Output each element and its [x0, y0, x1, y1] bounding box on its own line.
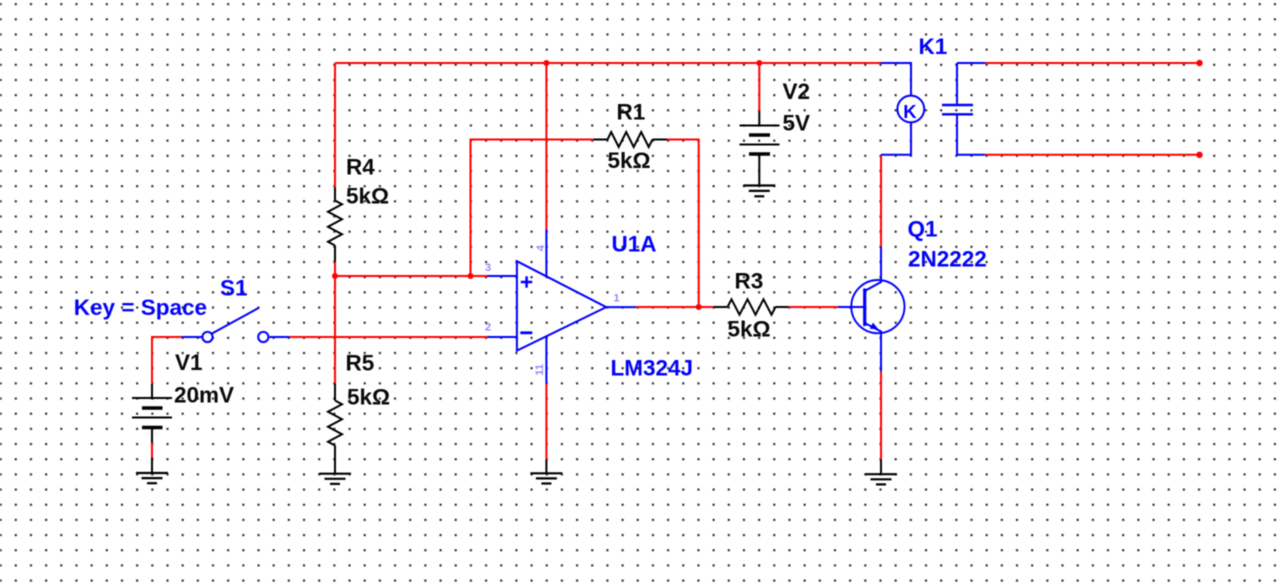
S1 left pin stub — [182, 336, 202, 338]
R5 zigzag body — [328, 401, 342, 446]
wire: R3 to Q1 base — [789, 306, 839, 308]
S1 right pin stub — [270, 336, 290, 338]
S1 blade — [212, 308, 259, 334]
svg-text:5V: 5V — [783, 110, 811, 135]
junction: divider node A — [332, 273, 338, 279]
svg-text:5kΩ: 5kΩ — [347, 385, 390, 410]
R5 top lead — [334, 384, 336, 401]
R4 bottom lead — [334, 246, 336, 263]
svg-text:U1A: U1A — [612, 232, 657, 257]
svg-text:1: 1 — [614, 293, 620, 305]
K1 contact bottom plate — [942, 113, 973, 115]
svg-text:4: 4 — [535, 244, 547, 251]
V1 top lead — [151, 384, 153, 398]
svg-text:S1: S1 — [220, 275, 248, 300]
Q1 body circle — [851, 280, 904, 333]
K1 coil bottom pin stub — [881, 122, 911, 154]
R3 left lead — [714, 306, 728, 308]
K1 coil circle — [897, 96, 924, 123]
Q1 base bar — [863, 289, 866, 327]
resistor R4 — [328, 155, 389, 263]
ground: V1 — [136, 458, 168, 484]
svg-text:2: 2 — [485, 322, 491, 334]
svg-text:Q1: Q1 — [908, 216, 938, 241]
K1 contact top plate — [942, 104, 973, 106]
wire: V+ top rail from R4 top to relay coil — [335, 62, 881, 64]
node: bottom terminal endpoint — [1196, 152, 1202, 158]
wire: op-amp output to R3 — [636, 306, 714, 308]
svg-text:20mV: 20mV — [174, 382, 234, 407]
relay K1 contact — [942, 63, 985, 155]
V2 bottom lead — [758, 154, 760, 186]
wire: relay coil bottom down to Q1 collector — [880, 156, 882, 247]
S1 pole contact circle — [202, 332, 212, 342]
ground: Q1 emitter — [865, 460, 897, 485]
R3 zigzag body — [728, 299, 776, 314]
K1 contact top stub — [956, 63, 958, 104]
svg-text:5kΩ: 5kΩ — [728, 317, 771, 342]
wire: divider node to op-amp pin 3 — [335, 275, 488, 277]
wire: V1 bottom to ground — [151, 443, 153, 458]
V2 long plate 2 — [740, 144, 780, 146]
ground: V2 — [743, 186, 775, 197]
svg-text:R5: R5 — [346, 350, 375, 375]
svg-text:5kΩ: 5kΩ — [608, 148, 651, 173]
resistor R5 — [328, 350, 390, 473]
V2 short plate 1 — [749, 133, 770, 137]
V2 short plate 2 — [749, 152, 770, 156]
transistor Q1 — [838, 216, 987, 371]
U1A pin 1 output stub — [606, 306, 636, 308]
wire: rail down to V2 positive terminal — [758, 63, 760, 111]
R1 zigzag body — [608, 132, 653, 147]
R1 left lead — [594, 139, 608, 141]
svg-text:5kΩ: 5kΩ — [346, 184, 389, 209]
V2 top lead — [758, 111, 760, 126]
wire: R1 right down to output node — [667, 140, 699, 308]
K1 coil top pin stub — [881, 63, 911, 96]
V2 long plate 1 — [740, 125, 780, 127]
svg-text:2N2222: 2N2222 — [908, 247, 987, 272]
svg-text:R1: R1 — [617, 100, 646, 125]
switch S1 — [74, 275, 290, 342]
svg-text:K1: K1 — [919, 34, 948, 59]
svg-text:R3: R3 — [735, 269, 764, 294]
Q1 emitter line — [865, 323, 881, 372]
voltage source V2 — [740, 79, 811, 185]
wire: R4 top lead from rail corner — [334, 63, 336, 188]
Q1 base pin stub — [838, 306, 864, 308]
U1A minus input mark — [520, 331, 532, 334]
S1 throw contact circle — [258, 332, 268, 342]
R4 top lead — [334, 188, 336, 201]
Q1 emitter arrow — [870, 323, 879, 330]
node: top terminal endpoint — [1196, 60, 1202, 66]
V1 short plate 2 — [142, 426, 163, 430]
op-amp U1A — [485, 230, 693, 384]
wire: pin 11 down to ground — [545, 384, 547, 460]
junction: feedback tap on pin 3 net — [468, 273, 474, 279]
R5 bottom lead — [334, 446, 336, 474]
R1 right lead — [653, 139, 668, 141]
svg-text:3: 3 — [485, 262, 491, 274]
U1A pin 4 stub — [545, 230, 547, 278]
junction: rail to V2 — [756, 60, 762, 66]
junction: rail to op-amp supply — [543, 60, 549, 66]
wire: contact top to terminal — [985, 62, 1200, 64]
V1 bottom lead — [151, 428, 153, 444]
svg-text:LM324J: LM324J — [611, 355, 694, 380]
wire: divider node down to R5 — [334, 276, 336, 384]
svg-text:K: K — [903, 101, 917, 122]
U1A pin 11 stub — [545, 336, 547, 384]
resistor R1 — [594, 100, 668, 174]
U1A pin 2 stub — [488, 336, 517, 338]
V1 long plate 1 — [132, 397, 172, 399]
R4 zigzag body — [328, 201, 342, 246]
wire: contact bottom to terminal — [985, 154, 1200, 156]
wire: rail down to op-amp pin 4 — [545, 63, 547, 230]
V1 short plate 1 — [142, 406, 163, 410]
svg-text:R4: R4 — [346, 155, 375, 180]
relay K1 coil — [881, 34, 947, 155]
Q1 collector line — [865, 247, 881, 292]
ground: op-amp pin 11 — [530, 460, 562, 484]
wire: switch to op-amp pin 2 — [290, 336, 488, 338]
svg-text:Key = Space: Key = Space — [74, 295, 207, 320]
voltage source V1 — [132, 350, 234, 443]
wire: V1 top up and right to switch — [152, 337, 182, 384]
junction: output node to feedback — [696, 304, 702, 310]
svg-text:V1: V1 — [175, 350, 203, 375]
K1 contact bottom stub — [957, 116, 985, 155]
R3 right lead — [776, 306, 789, 308]
svg-text:V2: V2 — [783, 79, 811, 104]
wire: feedback up and over to R1 left — [471, 140, 594, 277]
U1A plus input mark — [521, 281, 533, 284]
V1 long plate 2 — [132, 417, 172, 419]
svg-text:11: 11 — [534, 364, 546, 376]
U1A pin 3 stub — [488, 275, 517, 277]
wire: R4 bottom to divider node — [334, 262, 336, 276]
wire: Q1 emitter down to ground — [880, 372, 882, 460]
U1A triangle body — [517, 261, 606, 351]
K1 contact top right stub — [957, 62, 985, 64]
ground: R5 — [319, 474, 351, 484]
resistor R3 — [714, 269, 789, 342]
